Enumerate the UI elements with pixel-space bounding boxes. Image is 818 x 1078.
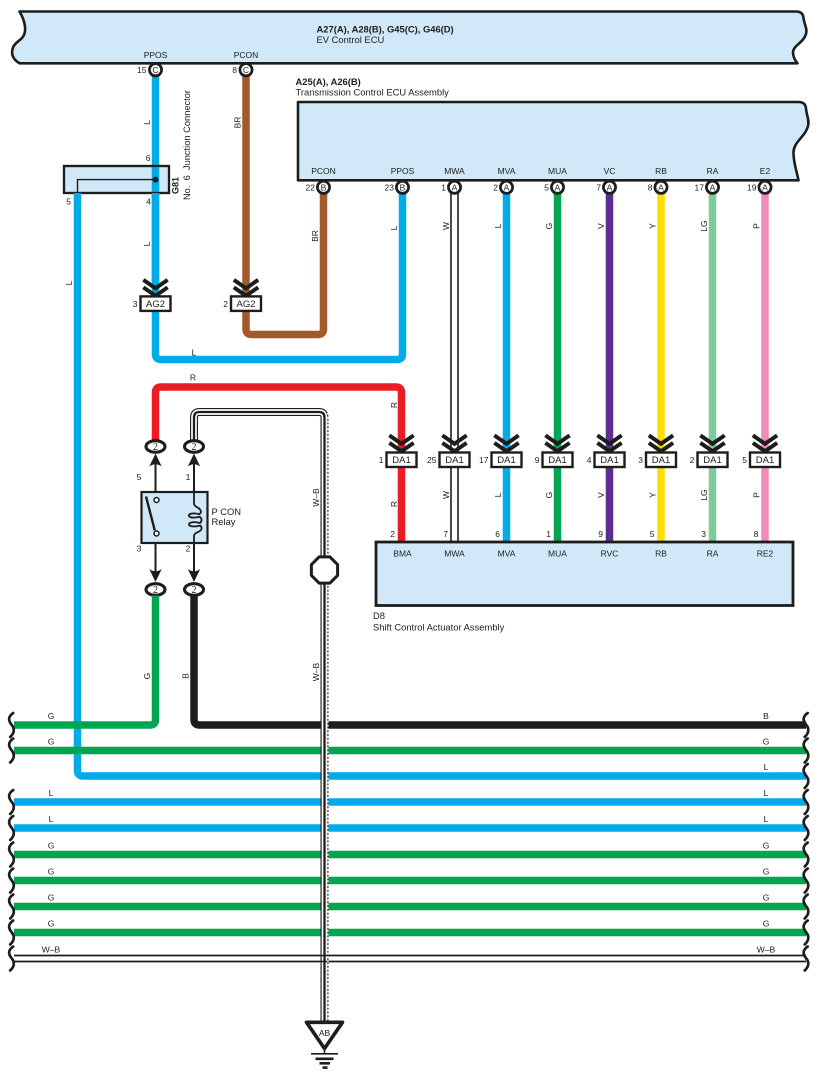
svg-text:LG: LG (699, 220, 709, 231)
svg-text:BMA: BMA (393, 549, 412, 559)
connector 1 DA1 (391, 437, 412, 444)
svg-text:A25(A), A26(B): A25(A), A26(B) (296, 76, 361, 87)
wire L long left (78, 193, 807, 776)
svg-text:6: 6 (146, 153, 151, 163)
tear mark right (804, 843, 809, 867)
G81 internal link (78, 180, 156, 193)
wire L G81 pin4 to AG2 (152, 193, 160, 296)
svg-text:C: C (243, 65, 249, 75)
connector 15 C (149, 64, 161, 76)
svg-text:G: G (763, 841, 770, 851)
svg-text:2: 2 (192, 442, 197, 453)
tear mark right (804, 764, 809, 788)
svg-text:L: L (192, 348, 197, 358)
svg-text:L: L (764, 762, 769, 772)
wire RB column (657, 187, 665, 542)
wire L AG2 to Transmission PPOS pin 23 (156, 190, 403, 360)
connector 9 DA1 (547, 437, 568, 444)
tear mark right (804, 790, 809, 814)
wire G relay to bus (14, 596, 156, 726)
wire E2 column (761, 187, 769, 542)
svg-text:EV Control ECU: EV Control ECU (317, 34, 385, 45)
svg-text:A: A (504, 182, 510, 192)
svg-text:3: 3 (701, 529, 706, 539)
oval connector 2 (green) (149, 569, 161, 582)
svg-text:PCON: PCON (234, 50, 259, 60)
svg-text:G: G (142, 673, 152, 680)
svg-text:G: G (544, 492, 554, 499)
wire L through G81 (152, 166, 160, 193)
svg-text:2: 2 (223, 299, 228, 309)
svg-text:A: A (762, 182, 768, 192)
svg-text:A: A (658, 182, 664, 192)
svg-text:L: L (64, 280, 74, 285)
svg-text:L: L (493, 223, 503, 228)
connector 17 A (RA) (706, 181, 718, 193)
tear mark left (9, 790, 14, 814)
wire W MWA column (450, 187, 459, 542)
connector 22 B (PCON) (317, 181, 329, 193)
svg-text:BR: BR (233, 117, 243, 129)
bus row G (14, 929, 806, 937)
connector 5 DA1 (755, 437, 776, 444)
tear mark right (804, 921, 809, 945)
svg-text:R: R (389, 501, 399, 507)
svg-text:DA1: DA1 (652, 455, 670, 466)
svg-text:DA1: DA1 (497, 455, 515, 466)
svg-text:5: 5 (137, 472, 142, 482)
svg-text:2: 2 (186, 544, 191, 554)
tear mark left (9, 921, 14, 945)
svg-text:AG2: AG2 (146, 299, 165, 310)
svg-text:19: 19 (747, 183, 757, 193)
svg-text:B: B (400, 182, 406, 192)
connector 4 DA1 (599, 437, 620, 444)
svg-text:DA1: DA1 (392, 455, 410, 466)
svg-text:DA1: DA1 (445, 455, 463, 466)
relay pin 3 lead (155, 543, 157, 572)
svg-text:RB: RB (655, 166, 667, 176)
relay switch (146, 497, 155, 531)
svg-text:V: V (596, 223, 606, 229)
svg-text:5: 5 (66, 197, 71, 207)
svg-text:PCON: PCON (311, 166, 336, 176)
svg-text:Relay: Relay (212, 516, 236, 527)
connector 2 AG2 (236, 281, 257, 288)
EV Control ECU block A27/A28/G45/G46 (12, 12, 806, 64)
tear mark right (804, 947, 809, 971)
tear mark right (804, 816, 809, 840)
bus row L (14, 824, 806, 832)
noise filter octagon (311, 557, 337, 583)
wire RA column (709, 187, 717, 542)
svg-text:3: 3 (133, 299, 138, 309)
svg-text:2: 2 (493, 183, 498, 193)
svg-text:8: 8 (232, 65, 237, 75)
svg-text:D8: D8 (373, 610, 385, 621)
svg-text:1: 1 (186, 472, 191, 482)
svg-text:G: G (544, 223, 554, 230)
P CON relay box (142, 492, 208, 543)
svg-text:L: L (764, 788, 769, 798)
svg-text:DA1: DA1 (756, 455, 774, 466)
svg-text:PPOS: PPOS (144, 50, 168, 60)
svg-text:3: 3 (638, 455, 643, 465)
svg-text:25: 25 (427, 455, 437, 465)
svg-text:2: 2 (153, 442, 158, 453)
svg-text:LG: LG (699, 489, 709, 500)
svg-text:1: 1 (441, 183, 446, 193)
svg-text:DA1: DA1 (600, 455, 618, 466)
wire W-B relay pin1 to ground AB (194, 412, 325, 1022)
svg-text:G: G (763, 737, 770, 747)
svg-text:No. 6 Junction Connector: No. 6 Junction Connector (182, 90, 192, 200)
svg-text:L: L (49, 814, 54, 824)
tear mark right (804, 713, 809, 737)
svg-text:MWA: MWA (444, 549, 465, 559)
svg-text:BR: BR (310, 230, 320, 242)
connector 8 A (RB) (655, 181, 667, 193)
svg-text:L: L (493, 492, 503, 497)
svg-text:P: P (752, 492, 762, 498)
wire B relay to bus (194, 596, 806, 726)
oval connector 2 (black) (188, 569, 200, 582)
svg-text:L: L (142, 120, 152, 125)
svg-text:RA: RA (707, 166, 719, 176)
svg-text:B: B (321, 182, 327, 192)
wire W-B vertical lower (321, 610, 329, 1022)
svg-text:MUA: MUA (548, 549, 567, 559)
tear mark left (9, 947, 14, 971)
svg-text:3: 3 (137, 544, 142, 554)
svg-text:MWA: MWA (444, 166, 465, 176)
wire BR AG2 to Transmission PCON pin 22 (246, 190, 324, 335)
svg-text:G: G (763, 919, 770, 929)
svg-text:1: 1 (379, 455, 384, 465)
connector 1 A (MWA) (448, 181, 460, 193)
svg-text:8: 8 (648, 183, 653, 193)
ground AB (307, 1022, 343, 1048)
svg-text:2: 2 (153, 585, 158, 596)
svg-text:C: C (152, 65, 158, 75)
tear mark left (9, 843, 14, 867)
Shift Control Actuator Assembly D8 (376, 542, 793, 606)
svg-text:7: 7 (443, 529, 448, 539)
svg-text:G: G (48, 867, 55, 877)
svg-text:AB: AB (319, 1028, 331, 1038)
svg-text:Transmission Control ECU Assem: Transmission Control ECU Assembly (296, 87, 450, 98)
svg-text:6: 6 (495, 529, 500, 539)
svg-text:Shift Control Actuator Assembl: Shift Control Actuator Assembly (373, 622, 505, 633)
svg-text:W–B: W–B (757, 945, 776, 955)
svg-text:V: V (596, 492, 606, 498)
connector 7 A (VC) (603, 181, 615, 193)
connector 19 A (E2) (759, 181, 771, 193)
svg-text:RE2: RE2 (757, 549, 774, 559)
wire L from EV ECU pin 15 (152, 70, 160, 296)
bus row G full width (14, 747, 806, 755)
tear mark left (9, 895, 14, 919)
svg-text:G: G (48, 893, 55, 903)
svg-text:G: G (48, 737, 55, 747)
bus row G (14, 903, 806, 911)
connector 23 B (PPOS) (396, 181, 408, 193)
svg-text:1: 1 (546, 529, 551, 539)
tear mark right (804, 895, 809, 919)
connector 2 DA1 (702, 437, 723, 444)
svg-text:R: R (190, 373, 196, 383)
svg-text:5: 5 (742, 455, 747, 465)
svg-text:MUA: MUA (548, 166, 567, 176)
svg-text:5: 5 (650, 529, 655, 539)
svg-text:Y: Y (648, 492, 658, 498)
W-B right edge dashed (327, 413, 329, 1021)
bus row W-B (14, 955, 806, 963)
svg-text:G: G (48, 919, 55, 929)
svg-text:A: A (452, 182, 458, 192)
wire MUA column (554, 187, 562, 542)
svg-text:Y: Y (648, 223, 658, 229)
bus row G (14, 851, 806, 859)
svg-text:RVC: RVC (601, 549, 619, 559)
connector 25 DA1 (444, 437, 465, 444)
connector 5 A (MUA) (551, 181, 563, 193)
svg-text:PPOS: PPOS (391, 166, 415, 176)
svg-text:22: 22 (306, 183, 316, 193)
svg-text:W: W (441, 222, 451, 230)
svg-text:W–B: W–B (311, 662, 321, 681)
svg-text:L: L (764, 814, 769, 824)
svg-text:23: 23 (385, 183, 395, 193)
connector 2 A (MVA) (500, 181, 512, 193)
oval connector 2 (red) (149, 454, 161, 467)
svg-text:4: 4 (146, 197, 151, 207)
svg-text:W: W (441, 491, 451, 499)
svg-text:DA1: DA1 (703, 455, 721, 466)
junction connector G81 box (64, 166, 169, 193)
tear mark right (804, 739, 809, 763)
svg-text:RB: RB (655, 549, 667, 559)
svg-text:W–B: W–B (311, 488, 321, 507)
relay coil (189, 492, 202, 543)
svg-text:5: 5 (544, 183, 549, 193)
svg-text:B: B (763, 711, 769, 721)
svg-text:R: R (389, 402, 399, 408)
svg-text:G: G (763, 893, 770, 903)
svg-text:L: L (142, 241, 152, 246)
svg-text:A27(A), A28(B), G45(C), G46(D): A27(A), A28(B), G45(C), G46(D) (317, 24, 454, 35)
svg-text:17: 17 (695, 183, 705, 193)
svg-text:RA: RA (707, 549, 719, 559)
svg-text:4: 4 (587, 455, 592, 465)
svg-text:DA1: DA1 (548, 455, 566, 466)
svg-text:2: 2 (192, 585, 197, 596)
wire R relay to DA1/D8 BMA (156, 387, 402, 542)
connector 3 AG2 (145, 281, 166, 288)
svg-text:8: 8 (754, 529, 759, 539)
svg-text:A: A (555, 182, 561, 192)
tear mark left (9, 739, 14, 763)
svg-text:G: G (48, 711, 55, 721)
svg-text:2: 2 (690, 455, 695, 465)
svg-text:MVA: MVA (498, 549, 516, 559)
svg-text:MVA: MVA (498, 166, 516, 176)
wire MVA column (503, 187, 511, 542)
svg-text:9: 9 (598, 529, 603, 539)
svg-text:G81: G81 (171, 177, 181, 194)
svg-text:9: 9 (535, 455, 540, 465)
connector 3 DA1 (651, 437, 672, 444)
tear mark right (804, 869, 809, 893)
svg-text:7: 7 (596, 183, 601, 193)
svg-text:A: A (607, 182, 613, 192)
connector 17 DA1 (496, 437, 517, 444)
svg-text:W–B: W–B (42, 945, 61, 955)
tear mark left (9, 869, 14, 893)
svg-text:A: A (710, 182, 716, 192)
oval connector 2 (W-B) (188, 454, 200, 467)
svg-text:15: 15 (137, 65, 147, 75)
svg-text:E2: E2 (760, 166, 771, 176)
connector 8 C (240, 64, 252, 76)
svg-text:L: L (389, 225, 399, 230)
tear mark left (9, 713, 14, 737)
svg-text:AG2: AG2 (236, 299, 255, 310)
wire BR from EV ECU pin 8 (242, 70, 250, 296)
tear mark left (9, 816, 14, 840)
svg-text:G: G (48, 841, 55, 851)
svg-text:L: L (49, 788, 54, 798)
svg-text:2: 2 (390, 529, 395, 539)
svg-text:VC: VC (604, 166, 616, 176)
svg-text:G: G (763, 867, 770, 877)
svg-text:P: P (752, 223, 762, 229)
svg-text:17: 17 (479, 455, 489, 465)
bus row G (14, 877, 806, 885)
bus row L (14, 798, 806, 806)
wire VC column (606, 187, 614, 542)
svg-text:B: B (181, 673, 191, 679)
